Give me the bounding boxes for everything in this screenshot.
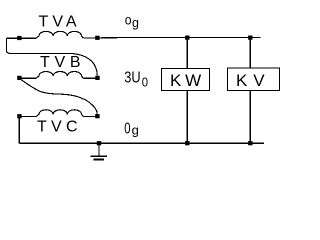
wire TVC row leads	[19, 116, 97, 118]
wire KW top lead	[186, 38, 188, 69]
relay KW box	[162, 69, 210, 91]
wire KW bottom lead	[186, 91, 188, 144]
wire TVA-left to TVB-right connector	[7, 38, 98, 75]
junction TVB left	[17, 76, 21, 80]
wire KV top lead	[249, 38, 251, 69]
junction og-KW	[185, 36, 189, 40]
junction TVC right	[95, 114, 99, 118]
wire KV bottom lead	[249, 91, 251, 144]
relay KV box	[228, 68, 280, 90]
wire TVB-left to TVC-right connector	[19, 78, 97, 116]
junction og-KV	[248, 36, 252, 40]
svg-text:KW: KW	[170, 71, 201, 90]
svg-text:0: 0	[142, 75, 148, 90]
svg-text:g: g	[132, 123, 139, 138]
wire TVB row leads	[19, 77, 97, 79]
junction TVA right	[95, 36, 99, 40]
junction 0g-KV	[248, 141, 252, 145]
wire TVC-left down to 0g bus	[18, 117, 20, 144]
winding TVC	[36, 110, 83, 117]
wire og bus left segment	[7, 37, 37, 39]
junction TVC left	[17, 114, 21, 118]
svg-text:TVA: TVA	[39, 14, 77, 31]
svg-text:TVC: TVC	[37, 119, 78, 136]
junction 0g-KW	[185, 141, 189, 145]
junction TVB right	[95, 76, 99, 80]
svg-text:0: 0	[124, 121, 130, 138]
wire 0g bus (bottom horizontal)	[19, 142, 264, 144]
svg-text:TVB: TVB	[40, 54, 81, 71]
svg-text:3U: 3U	[124, 70, 140, 87]
winding TVB	[36, 72, 83, 79]
junction ground	[97, 141, 101, 145]
junction TVA left	[17, 36, 21, 40]
wire og bus right segment	[83, 37, 260, 39]
ground	[98, 143, 100, 156]
winding TVA	[36, 31, 83, 38]
svg-text:g: g	[132, 16, 139, 30]
svg-text:o: o	[125, 12, 132, 27]
